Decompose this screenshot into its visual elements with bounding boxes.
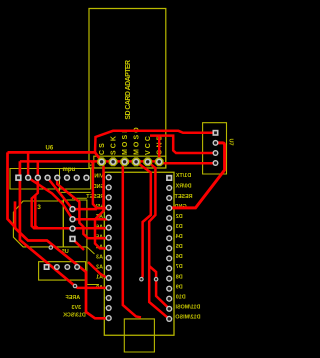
nano pin label A1: [96, 275, 103, 281]
via: [73, 284, 78, 289]
nano pin D7: [166, 265, 172, 271]
via: [154, 277, 159, 282]
svg-text:RESET: RESET: [174, 194, 193, 200]
nano pin label D9: [176, 284, 183, 290]
nano pin D8: [166, 276, 172, 282]
svg-text:U7: U7: [228, 139, 234, 146]
svg-text:SD CARD ADAPTER: SD CARD ADAPTER: [125, 60, 132, 120]
nano pin label GND: [175, 204, 187, 210]
U5 pin 3: [69, 225, 75, 231]
nano pin label D10: [176, 294, 186, 300]
wire: [95, 162, 109, 249]
svg-text:D4: D4: [176, 234, 183, 240]
nano pin D5: [166, 245, 172, 251]
nano pin label A6: [96, 224, 103, 230]
nano pin label D3: [176, 224, 183, 230]
nano pin label D11/MOSI: [175, 305, 200, 311]
svg-text:U6: U6: [46, 146, 54, 152]
mpu header outline: [10, 169, 91, 190]
mpu header pin 2: [25, 175, 31, 181]
wire: [136, 162, 151, 279]
wire: [57, 178, 108, 239]
nano pin label A4: [96, 244, 103, 250]
wire: [48, 178, 97, 209]
U5 outline: [63, 200, 87, 247]
via: [49, 245, 54, 250]
svg-text:D7: D7: [176, 264, 183, 270]
SD pad 6: [155, 157, 164, 166]
U5 extension lines: [60, 169, 100, 285]
wire: [156, 279, 169, 309]
nano pin label D5: [176, 244, 183, 250]
U5 pin 1: [69, 206, 75, 212]
wire: [15, 201, 110, 318]
svg-text:3: 3: [37, 204, 41, 211]
svg-text:D2: D2: [176, 214, 183, 220]
nano pin A4: [106, 245, 112, 251]
wire: [20, 161, 159, 208]
SD pad 5: [143, 157, 152, 166]
nano pin A2: [106, 265, 112, 271]
nano pin D10: [166, 296, 172, 302]
wire: [88, 262, 109, 279]
nano pin label +5V: [93, 204, 103, 210]
label U5 mirrored: [62, 249, 69, 255]
nano pin label A2: [96, 265, 103, 271]
nano pin A5: [106, 235, 112, 241]
wire: [169, 143, 224, 208]
U7 pin 3: [213, 150, 219, 156]
nano pin label A5: [96, 234, 103, 240]
wire: [73, 239, 85, 250]
nano pin A6: [106, 225, 112, 231]
svg-text:D13/SCK: D13/SCK: [63, 313, 86, 319]
mpu header pin 4: [44, 175, 50, 181]
wire: [95, 131, 216, 153]
nano pin D6: [166, 255, 172, 261]
svg-text:D3: D3: [176, 224, 183, 230]
SD pad 1: [97, 157, 106, 166]
svg-text:VCC: VCC: [145, 134, 152, 155]
nano pin label D13/SCK: [63, 313, 86, 319]
U5 pin 4: [69, 236, 75, 242]
nano pin A7: [106, 215, 112, 221]
svg-text:3V3: 3V3: [72, 305, 82, 311]
nano pin label AREF: [65, 295, 80, 301]
nano pin AREF: [106, 295, 112, 301]
nano pin label D12/MISO: [175, 315, 200, 321]
U7 outline: [203, 123, 227, 174]
nano pin label A0: [96, 285, 103, 291]
nano pin label A7: [96, 214, 103, 220]
U7 pin 2: [213, 140, 219, 146]
U5 pin 2: [69, 216, 75, 222]
bottom-left header outline: [39, 262, 86, 280]
nano pin GND: [166, 205, 172, 211]
bottom header pin 4: [74, 264, 80, 270]
wire: [158, 136, 161, 162]
wire: [37, 161, 40, 177]
SD pad 3: [120, 157, 129, 166]
bottom header pin 3: [64, 264, 70, 270]
mpu header pin 7: [74, 175, 80, 181]
nano pin label D2: [176, 214, 183, 220]
svg-text:D0/RX: D0/RX: [175, 184, 191, 190]
svg-text:VIN: VIN: [94, 174, 103, 180]
nano pin A1: [106, 275, 112, 281]
nano pin label D6: [176, 254, 183, 260]
nano pin label VIN: [94, 174, 103, 180]
wire: [148, 162, 170, 319]
wire: [8, 152, 16, 228]
nano pin label 3V3: [72, 305, 82, 311]
nano pin D9: [166, 286, 172, 292]
nano pin D0/RX: [166, 185, 172, 191]
svg-text:A3: A3: [96, 255, 103, 261]
wire: [32, 178, 109, 229]
nano pin A0: [106, 285, 112, 291]
U7 pin 4: [213, 160, 219, 166]
mpu header pin 5: [54, 175, 60, 181]
wire: [73, 218, 109, 221]
via: [139, 277, 144, 282]
USB connector outline: [124, 319, 154, 352]
nano pin A3: [106, 255, 112, 261]
nano pin VIN: [106, 174, 112, 180]
nano pin D4: [166, 235, 172, 241]
nano pin D12/MISO: [166, 316, 172, 322]
nano pin label D8: [176, 274, 183, 280]
nano pin label RESET: [174, 194, 193, 200]
svg-text:mpu: mpu: [63, 167, 76, 173]
svg-text:MOSI: MOSI: [122, 129, 129, 155]
bottom header pin 2: [54, 264, 60, 270]
nano pin label D0/RX: [175, 184, 191, 190]
SD header outline: [94, 156, 166, 168]
bottom header pin 1: [44, 264, 50, 270]
nano pin +5V: [106, 204, 112, 210]
svg-text:D5: D5: [176, 244, 183, 250]
nano pin GND: [106, 184, 112, 190]
svg-text:D9: D9: [176, 284, 183, 290]
nano pin label D4: [176, 234, 183, 240]
component 3 octagon body: [13, 201, 63, 247]
svg-text:D12/MISO: D12/MISO: [175, 315, 200, 321]
svg-text:SCK: SCK: [110, 134, 117, 155]
wire: [123, 162, 141, 317]
wire: [28, 178, 72, 220]
nano pin label GND: [93, 184, 105, 190]
svg-text:RESET: RESET: [86, 194, 105, 200]
SD pad 4: [132, 157, 141, 166]
wire: [35, 196, 38, 228]
mpu header pin 6: [64, 175, 70, 181]
nano pin D3: [166, 225, 172, 231]
SD card adapter outline: [89, 9, 166, 169]
svg-text:D6: D6: [176, 254, 183, 260]
U7 pin 1: [213, 130, 219, 136]
nano pin D1/TX: [166, 175, 172, 181]
wire: [75, 286, 109, 288]
svg-text:D8: D8: [176, 274, 183, 280]
wire: [159, 162, 215, 164]
svg-text:D11/MOSI: D11/MOSI: [175, 305, 200, 311]
SD pad 2: [109, 157, 118, 166]
nano pin label D7: [176, 264, 183, 270]
mpu header pin 3: [35, 175, 41, 181]
wire: [20, 161, 75, 286]
wire: [27, 152, 30, 177]
svg-text:CS: CS: [99, 141, 106, 155]
wire: [150, 136, 216, 153]
svg-text:D1/TX: D1/TX: [176, 173, 192, 179]
nano pin D11/MOSI: [166, 306, 172, 312]
nano pin RESET: [166, 195, 172, 201]
nano pin label D1/TX: [176, 173, 192, 179]
mpu header pin 1: [15, 175, 21, 181]
nano pin RESET: [106, 194, 112, 200]
svg-text:D10: D10: [176, 294, 186, 300]
nano pin 3V3: [106, 305, 112, 311]
nano pin label RESET: [86, 194, 105, 200]
wire: [149, 266, 156, 279]
nano pin D2: [166, 215, 172, 221]
mpu header pin 8: [83, 175, 89, 181]
nano module outline: [104, 172, 174, 335]
nano pin D13/SCK: [106, 315, 112, 321]
wire: [8, 152, 102, 161]
nano pin label A3: [96, 255, 103, 261]
svg-text:AREF: AREF: [65, 295, 80, 301]
